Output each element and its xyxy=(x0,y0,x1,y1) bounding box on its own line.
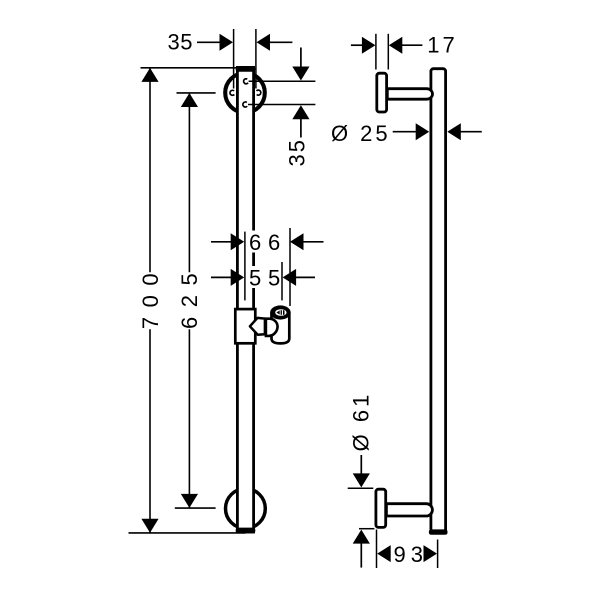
dim 625 arrow down xyxy=(181,494,198,508)
dim 66 right leader xyxy=(303,241,324,243)
extension line cup edge for dim 66 xyxy=(289,228,291,306)
cup inner bar 1 xyxy=(281,310,282,315)
svg-text:93: 93 xyxy=(394,542,428,567)
svg-text:Ø 61: Ø 61 xyxy=(348,392,373,452)
top arm xyxy=(387,89,432,100)
cup inner bar 2 xyxy=(283,310,285,315)
label 55 background xyxy=(248,266,281,288)
dim 35 top arrow right-pointing xyxy=(220,34,234,51)
rail tube side view xyxy=(431,69,446,533)
dim 25 arrow right-pointing xyxy=(416,123,430,140)
label 66 background xyxy=(248,231,281,253)
dim 625 arrow up xyxy=(181,93,198,107)
rail bottom end cap xyxy=(236,528,256,534)
dim 17 right leader xyxy=(402,44,423,46)
cup inner triangle xyxy=(276,310,279,314)
dim 66 left leader xyxy=(211,241,232,243)
dim 61 arrow up xyxy=(353,530,370,544)
dim 35 top extension right xyxy=(255,29,257,89)
dim 93 arrow right-pointing xyxy=(424,545,438,562)
holder nose xyxy=(266,319,278,336)
svg-text:Ø 25: Ø 25 xyxy=(331,121,391,146)
dim 35 right extension upper xyxy=(249,80,316,82)
dim 35 right arrow down xyxy=(292,67,309,81)
dim 35 top extension left xyxy=(233,29,235,89)
slider block xyxy=(235,309,255,343)
dim 61 extension upper xyxy=(348,487,374,489)
dim 17 arrow right-pointing xyxy=(362,37,376,54)
dim 35 top left leader xyxy=(197,41,220,43)
dim 25 right leader xyxy=(460,131,482,133)
dim 25 left leader xyxy=(393,131,417,133)
screw detail bottom xyxy=(243,102,247,107)
screw detail top xyxy=(244,79,248,84)
dim 61 arrow down xyxy=(353,473,370,487)
svg-text:66: 66 xyxy=(249,230,287,255)
dim 61 upper leader xyxy=(360,455,362,474)
dim 25 arrow left-pointing xyxy=(447,123,461,140)
dim 35 right arrow up xyxy=(292,105,309,119)
extension line cup axis for dim 55 xyxy=(281,262,283,300)
bottom escutcheon circle xyxy=(226,489,266,529)
extension line for dim 700 bottom xyxy=(129,532,246,534)
dim 17 arrow left-pointing xyxy=(389,37,403,54)
svg-text:35: 35 xyxy=(168,30,193,55)
dim 17 left leader xyxy=(351,44,363,46)
dim 17 extension right xyxy=(387,34,389,70)
cup top ellipse ring xyxy=(270,305,291,319)
dim 61 lower leader xyxy=(360,543,362,567)
screw detail right xyxy=(257,90,261,95)
extension line for dim 700 top xyxy=(141,67,237,69)
dim 55 arrow left-pointing xyxy=(283,269,297,286)
dim 55 arrow right-pointing xyxy=(231,269,245,286)
extension line for dim 625 top xyxy=(177,92,216,94)
dim 17 extension left xyxy=(375,34,377,70)
extension line rail centerline for dim 66 xyxy=(244,232,246,301)
dim 625 line lower segment xyxy=(188,329,190,507)
cup top inner xyxy=(275,309,286,316)
bottom arm xyxy=(386,504,432,516)
svg-text:625: 625 xyxy=(177,264,202,329)
dim 93 arrow left-pointing xyxy=(377,545,391,562)
svg-text:35: 35 xyxy=(284,138,309,166)
cup body xyxy=(272,312,290,343)
screw detail left xyxy=(230,90,234,95)
dim 700 line upper segment xyxy=(149,69,151,273)
dim 55 right leader xyxy=(296,276,315,278)
svg-text:700: 700 xyxy=(138,264,163,329)
dim 700 arrow up xyxy=(141,68,158,82)
dim 66 arrow left-pointing xyxy=(290,233,304,250)
dim 35 top arrow left-pointing xyxy=(257,34,271,51)
dim 93 extension right xyxy=(437,540,439,569)
top escutcheon circle xyxy=(225,73,265,113)
dim 55 left leader xyxy=(211,276,232,278)
dim 35 right lower leader xyxy=(300,119,302,138)
svg-text:17: 17 xyxy=(427,32,457,57)
dim 35 right upper leader xyxy=(300,48,302,68)
top wall plate xyxy=(377,73,387,112)
dim 35 top right leader xyxy=(269,41,292,43)
rail tube front view xyxy=(237,67,253,532)
dim 700 arrow down xyxy=(141,519,158,533)
bottom wall plate xyxy=(376,489,386,527)
dim 35 right extension lower xyxy=(248,104,315,106)
svg-text:55: 55 xyxy=(249,265,287,290)
dim 93 extension left xyxy=(376,530,378,569)
dim 625 line upper segment xyxy=(188,94,190,273)
holder cone wedge xyxy=(250,318,265,335)
dim 61 extension lower xyxy=(359,528,374,530)
extension line for dim 625 bottom xyxy=(175,507,216,509)
rail top end cap xyxy=(236,66,256,72)
dim 700 line lower segment xyxy=(149,329,151,532)
dim 66 arrow right-pointing xyxy=(231,233,245,250)
rail bottom cap side xyxy=(429,529,448,534)
